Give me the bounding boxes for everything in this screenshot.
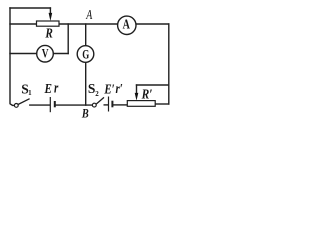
wire G bottom lead to node B	[85, 62, 87, 105]
wire S1 to battery E	[30, 104, 50, 106]
wire R' slider branch horizontal	[137, 84, 169, 86]
battery E r short plate	[54, 101, 56, 107]
battery E' r' long plate	[108, 97, 110, 112]
label E'	[104, 81, 115, 97]
wire R' slider drop	[136, 85, 138, 95]
switch S1 blade	[18, 99, 30, 105]
svg-text:R′: R′	[141, 86, 153, 101]
switch S1 pivot	[14, 104, 18, 108]
switch S2 blade	[96, 97, 104, 104]
node A label	[85, 6, 92, 22]
wire V left lead	[10, 53, 37, 55]
wire top horizontal	[10, 7, 50, 9]
svg-text:V: V	[42, 47, 49, 61]
node B label	[81, 108, 89, 121]
wire left vertical	[10, 8, 15, 105]
label r'	[116, 81, 123, 97]
svg-text:r′: r′	[116, 81, 123, 97]
wire G top lead	[85, 24, 87, 46]
voltmeter V	[37, 45, 54, 62]
svg-text:1: 1	[28, 89, 32, 97]
svg-text:G: G	[82, 48, 89, 62]
arrowhead of R slider	[49, 13, 53, 21]
wire R' right lead	[155, 103, 169, 105]
wire V branch vertical	[67, 24, 69, 54]
galvanometer G	[77, 46, 94, 63]
svg-text:A: A	[85, 6, 92, 22]
wire battery E to node B to S2	[56, 104, 93, 106]
battery E' r' short plate	[111, 101, 113, 108]
wire rheostat R slider drop	[49, 8, 51, 15]
svg-text:S: S	[88, 81, 96, 96]
label r	[54, 80, 59, 96]
wire main horizontal A-row	[59, 23, 169, 25]
svg-text:A: A	[123, 16, 130, 32]
svg-text:E: E	[44, 81, 52, 96]
svg-text:2: 2	[95, 90, 99, 98]
wire V right lead	[53, 53, 68, 55]
wire battery E' to R' left lead	[113, 104, 127, 106]
label E	[44, 81, 52, 96]
switch S2 pivot	[92, 103, 96, 107]
label R	[44, 26, 52, 41]
battery E r long plate	[49, 97, 51, 112]
svg-text:E′: E′	[104, 81, 115, 97]
ammeter A	[118, 16, 136, 34]
svg-text:R: R	[44, 26, 52, 41]
svg-text:B: B	[81, 108, 89, 121]
label R'	[141, 86, 153, 101]
arrowhead of R' slider	[135, 93, 139, 101]
wire R left lead	[10, 23, 37, 25]
resistor R	[37, 21, 60, 26]
rheostat R'	[127, 101, 155, 107]
wire S2 to battery E'	[104, 104, 108, 106]
wire right vertical	[168, 24, 170, 104]
